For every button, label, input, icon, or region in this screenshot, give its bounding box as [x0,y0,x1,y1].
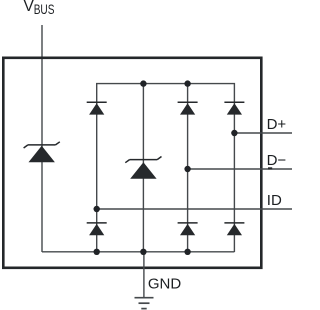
wire column C2 (x=143.4) [142,84,144,252]
svg-text:D−: D− [267,152,287,169]
svg-text:GND: GND [148,275,182,292]
zener Z2 (middle clamp, on column C2) [125,157,161,179]
diode D4 (C1 bottom, cathode up) [87,223,107,235]
label VBUS [24,0,55,17]
junction node C2/bottom-bus [140,249,146,255]
wire column C1 (x=96.7) [96,103,98,252]
wire column C4 (x=234.4) [233,103,235,252]
wire column C3 (x=187.6) [187,84,189,252]
wire D+ (pin lead, y=133) [234,132,292,134]
junction node C3/top-bus [184,80,190,86]
svg-text:D+: D+ [267,116,287,133]
wire ID (pin lead, y=209) [97,208,292,210]
wire VBUS vertical (net VBUS, column C0) [41,25,43,252]
junction node C1/bottom-bus [94,249,100,255]
junction node C3/bottom-bus [184,249,190,255]
junction node C2/top-bus [140,80,146,86]
zener Z1 (VBUS clamp, on column C0) [24,142,60,162]
junction node C4/D+ [231,130,237,136]
diode D2 (C3 top, cathode up) [178,102,198,114]
svg-text:BUS: BUS [34,2,55,17]
diode D6 (C4 bottom, cathode up) [224,223,244,235]
diode D5 (C3 bottom, cathode up) [178,223,198,235]
wire GND stem (column C2 to ground) [143,252,145,298]
label D- [267,152,287,170]
ground symbol [135,298,154,309]
wire D- (pin lead, y=169) [188,168,292,170]
diode D1 (C1 top, cathode up) [87,102,107,114]
bottom bus wire (y=251.8 from C0 to C4) [42,251,234,253]
diode D3 (C4 top, cathode up) [224,102,244,114]
junction node C3/D- [184,166,190,172]
IC boundary box [3,58,261,268]
svg-text:ID: ID [267,192,282,209]
top bus wire (y=83.6 from C1 to C4) [97,84,235,115]
junction node C1/ID [94,206,100,212]
